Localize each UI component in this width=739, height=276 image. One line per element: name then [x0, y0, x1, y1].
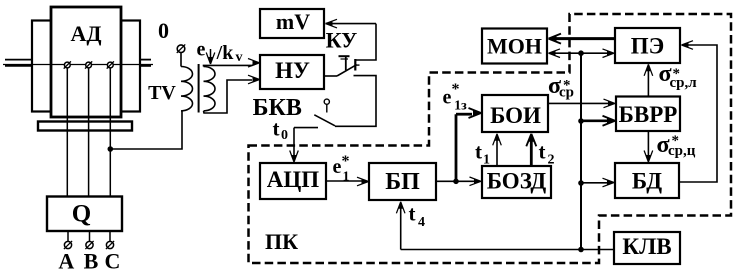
svg-text:t: t — [273, 117, 280, 141]
svg-text:ПК: ПК — [265, 229, 298, 254]
svg-text:e: e — [443, 87, 452, 109]
svg-text:4: 4 — [418, 215, 425, 230]
svg-text:В: В — [84, 249, 99, 274]
svg-text:КУ: КУ — [326, 28, 358, 53]
svg-text:e: e — [333, 156, 342, 178]
svg-text:БП: БП — [385, 169, 420, 195]
svg-text:*: * — [563, 78, 571, 94]
svg-text:БОЗД: БОЗД — [487, 169, 547, 194]
svg-text:Q: Q — [72, 201, 91, 228]
svg-text:v: v — [236, 50, 243, 65]
svg-text:МОН: МОН — [487, 34, 542, 59]
svg-text:АЦП: АЦП — [267, 167, 320, 192]
svg-text:/k: /k — [216, 42, 235, 64]
svg-text:t: t — [539, 140, 546, 164]
svg-text:t: t — [475, 140, 482, 164]
svg-text:КЛВ: КЛВ — [622, 234, 671, 259]
svg-text:2: 2 — [548, 153, 555, 168]
svg-text:*: * — [452, 81, 460, 98]
svg-text:0: 0 — [281, 128, 288, 143]
svg-text:t: t — [409, 202, 416, 226]
svg-text:1: 1 — [343, 170, 350, 185]
svg-text:1з: 1з — [454, 99, 467, 114]
svg-text:АД: АД — [70, 21, 101, 46]
svg-text:TV: TV — [148, 82, 176, 104]
svg-text:*: * — [673, 66, 681, 82]
svg-text:БД: БД — [632, 169, 662, 194]
svg-text:*: * — [342, 153, 350, 170]
svg-text:НУ: НУ — [275, 58, 310, 83]
svg-text:mV: mV — [276, 9, 310, 34]
svg-text:БОИ: БОИ — [490, 103, 541, 128]
svg-text:С: С — [105, 249, 121, 274]
svg-text:0: 0 — [158, 18, 169, 43]
svg-text:1: 1 — [483, 153, 490, 168]
svg-text:ПЭ: ПЭ — [631, 34, 665, 59]
svg-text:БВРР: БВРР — [619, 102, 678, 127]
svg-text:*: * — [672, 133, 680, 149]
svg-text:e: e — [197, 39, 206, 61]
svg-text:А: А — [58, 249, 74, 274]
